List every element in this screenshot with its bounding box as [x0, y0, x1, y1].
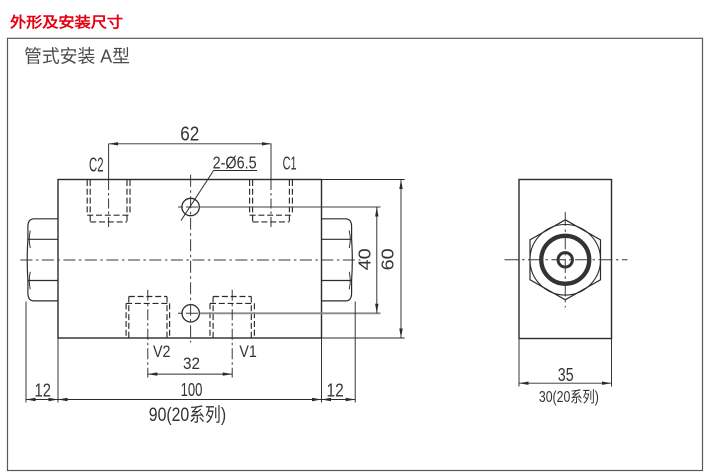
- dim 40: [200, 206, 381, 208]
- hole crosshair bottom: [178, 312, 203, 314]
- mounting hole top: [182, 198, 199, 215]
- svg-text:30(20系列): 30(20系列): [539, 388, 599, 406]
- dim 60: [322, 180, 405, 339]
- leader 2-Ø6.5: [181, 171, 257, 221]
- seat ring thick: [541, 236, 589, 284]
- hex nut: [530, 220, 601, 300]
- svg-text:C2: C2: [89, 154, 104, 176]
- side crosshair horizontal: [505, 259, 628, 261]
- dim 62: [109, 144, 272, 229]
- port C2 dashed: [87, 180, 130, 222]
- side crosshair vertical: [564, 212, 566, 308]
- svg-text:60: 60: [378, 248, 398, 270]
- svg-text:35: 35: [558, 364, 574, 385]
- svg-text:12: 12: [35, 379, 51, 400]
- right nut outline: [322, 219, 353, 301]
- svg-text:90(20系列): 90(20系列): [149, 404, 226, 426]
- svg-text:40: 40: [355, 248, 375, 270]
- port V1 dashed: [210, 297, 254, 339]
- port C1 dashed: [250, 180, 293, 222]
- svg-text:V1: V1: [239, 342, 256, 361]
- svg-text:2-Ø6.5: 2-Ø6.5: [213, 152, 257, 172]
- mounting hole bottom: [182, 305, 199, 322]
- svg-text:32: 32: [183, 354, 200, 373]
- washer circle: [530, 224, 601, 295]
- svg-text:12: 12: [327, 379, 344, 400]
- svg-text:62: 62: [180, 124, 199, 146]
- svg-text:V2: V2: [153, 342, 171, 361]
- svg-text:管式安装 A型: 管式安装 A型: [24, 47, 130, 67]
- svg-text:100: 100: [181, 379, 203, 400]
- hole crosshair top: [178, 206, 203, 208]
- svg-text:外形及安装尺寸: 外形及安装尺寸: [10, 14, 124, 32]
- side body rect: [519, 180, 612, 339]
- centerline horizontal main: [20, 259, 360, 261]
- left nut outline: [27, 219, 58, 301]
- center hole thick: [558, 253, 572, 267]
- dim 32: [148, 290, 232, 378]
- port V2 dashed: [126, 297, 170, 339]
- dims 12 / 100 / 12: [26, 302, 355, 403]
- dim 35: [519, 339, 612, 387]
- centerline vertical through holes: [190, 175, 192, 343]
- svg-text:C1: C1: [283, 154, 297, 174]
- front body rect: [58, 180, 322, 339]
